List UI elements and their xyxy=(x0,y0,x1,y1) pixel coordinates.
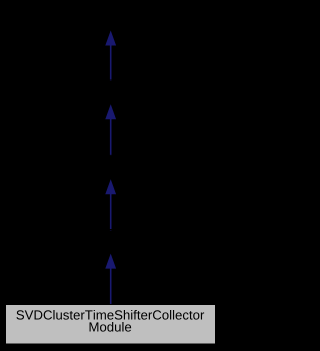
inheritance arrow 1 (Module to PathElement) xyxy=(105,31,116,81)
inheritance arrow 2 (HistoModule to Module) xyxy=(105,104,116,156)
svg-text:CalibrationCollectorModule: CalibrationCollectorModule xyxy=(31,233,189,248)
svg-text:PathElement: PathElement xyxy=(73,10,149,25)
inheritance arrow 4 (SVDClusterTimeShifterCollectorModule to CalibrationCollectorModule) xyxy=(105,254,116,305)
class box SVDClusterTimeShifterCollectorModule (current class, grey) xyxy=(6,305,216,345)
inheritance arrow 3 (CalibrationCollectorModule to HistoModule) xyxy=(105,179,116,230)
class box HistoModule (black on black, invisible) xyxy=(74,155,147,179)
class box CalibrationCollectorModule (black on black, invisible) xyxy=(31,230,189,254)
class box PathElement (black on black, invisible) xyxy=(73,7,149,31)
svg-text:HistoModule: HistoModule xyxy=(74,159,147,174)
inheritance diagram SVDClusterTimeShifterCollectorModule xyxy=(0,0,221,351)
class box Module (black on black, invisible) xyxy=(85,80,136,104)
svg-text:Module: Module xyxy=(89,84,132,99)
